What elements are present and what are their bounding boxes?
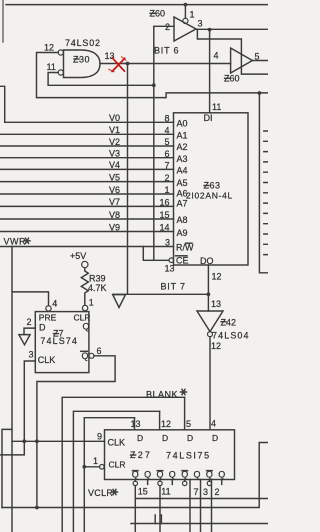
svg-text:4: 4 <box>164 126 169 136</box>
svg-text:3: 3 <box>165 238 170 248</box>
svg-text:Z42: Z42 <box>221 318 237 328</box>
svg-text:Q: Q <box>82 351 89 361</box>
svg-text:Q: Q <box>144 470 151 480</box>
svg-text:PRE: PRE <box>39 312 57 322</box>
svg-text:1: 1 <box>164 185 169 195</box>
svg-text:D: D <box>162 433 168 443</box>
svg-text:DI: DI <box>204 113 213 123</box>
svg-text:2: 2 <box>215 487 220 497</box>
svg-text:Q: Q <box>169 470 176 480</box>
svg-text:15: 15 <box>138 487 148 497</box>
svg-text:5: 5 <box>255 52 260 62</box>
svg-text:6: 6 <box>164 149 169 159</box>
svg-text:A3: A3 <box>177 154 188 164</box>
svg-text:5: 5 <box>164 137 169 147</box>
svg-text:A8: A8 <box>177 215 188 225</box>
svg-text:16: 16 <box>159 198 169 208</box>
svg-text:8: 8 <box>164 114 169 124</box>
svg-text:11: 11 <box>212 102 221 112</box>
svg-text:1: 1 <box>89 298 94 308</box>
svg-text:13: 13 <box>211 299 221 309</box>
svg-text:V1: V1 <box>109 125 120 135</box>
svg-text:BIT 7: BIT 7 <box>161 282 186 292</box>
svg-text:12: 12 <box>44 43 54 53</box>
svg-text:4: 4 <box>214 51 219 61</box>
svg-text:3: 3 <box>29 350 34 360</box>
svg-text:VCLR: VCLR <box>88 488 113 498</box>
svg-text:Q: Q <box>218 470 225 480</box>
svg-text:A4: A4 <box>177 166 188 176</box>
svg-text:6: 6 <box>97 346 102 356</box>
svg-text:D: D <box>39 323 46 333</box>
svg-text:5: 5 <box>186 419 191 429</box>
svg-text:CLK: CLK <box>38 355 56 365</box>
svg-text:12: 12 <box>212 272 222 282</box>
svg-text:13: 13 <box>165 264 175 274</box>
svg-text:A5: A5 <box>177 178 188 188</box>
svg-text:74LS04: 74LS04 <box>212 331 250 341</box>
svg-text:1: 1 <box>190 10 195 20</box>
svg-text:DO: DO <box>200 256 214 266</box>
svg-text:V0: V0 <box>109 113 120 123</box>
svg-text:A2: A2 <box>177 142 188 152</box>
svg-text:4: 4 <box>211 419 216 429</box>
svg-text:2: 2 <box>165 22 170 32</box>
svg-text:4: 4 <box>52 299 57 309</box>
svg-text:15: 15 <box>159 210 169 220</box>
svg-text:+5V: +5V <box>70 251 86 261</box>
svg-text:3: 3 <box>203 487 208 497</box>
svg-text:R/W: R/W <box>176 243 194 253</box>
svg-text:74LS74: 74LS74 <box>40 336 78 346</box>
svg-text:7: 7 <box>164 161 169 171</box>
svg-text:V7: V7 <box>109 197 120 207</box>
svg-text:3: 3 <box>198 19 203 29</box>
svg-text:V3: V3 <box>109 149 120 159</box>
svg-text:BIT 6: BIT 6 <box>154 46 179 56</box>
svg-text:7: 7 <box>194 487 199 497</box>
svg-text:74LSI75: 74LSI75 <box>166 451 211 461</box>
svg-text:A9: A9 <box>177 228 188 238</box>
svg-text:12: 12 <box>161 419 171 429</box>
svg-text:12: 12 <box>211 341 221 351</box>
svg-text:D: D <box>212 433 218 443</box>
svg-text:CLK: CLK <box>108 438 126 448</box>
svg-text:2: 2 <box>27 317 32 327</box>
svg-text:V6: V6 <box>109 185 120 195</box>
svg-text:V8: V8 <box>109 210 120 220</box>
svg-text:9: 9 <box>97 432 102 442</box>
svg-text:VWR: VWR <box>4 236 27 246</box>
svg-text:Q: Q <box>83 322 90 332</box>
svg-text:Q: Q <box>193 470 200 480</box>
svg-text:D: D <box>137 433 143 443</box>
svg-text:BLANK: BLANK <box>146 389 178 399</box>
svg-text:A1: A1 <box>177 131 188 141</box>
svg-text:4.7K: 4.7K <box>88 283 107 293</box>
svg-text:11: 11 <box>161 487 170 497</box>
svg-text:V2: V2 <box>109 137 120 147</box>
svg-text:74LS02: 74LS02 <box>65 38 101 48</box>
svg-text:14: 14 <box>159 223 169 233</box>
svg-text:V4: V4 <box>109 160 120 170</box>
svg-text:A0: A0 <box>177 119 188 129</box>
svg-text:13: 13 <box>131 419 141 429</box>
svg-text:V9: V9 <box>109 222 120 232</box>
svg-text:2: 2 <box>164 173 169 183</box>
svg-text:11: 11 <box>47 62 56 72</box>
svg-text:2I02AN-4L: 2I02AN-4L <box>186 191 233 201</box>
svg-text:CE: CE <box>176 256 189 266</box>
svg-text:D: D <box>187 433 193 443</box>
svg-text:R39: R39 <box>89 274 106 284</box>
svg-text:V5: V5 <box>109 172 120 182</box>
svg-text:1: 1 <box>93 456 98 466</box>
svg-text:CLR: CLR <box>109 460 126 470</box>
